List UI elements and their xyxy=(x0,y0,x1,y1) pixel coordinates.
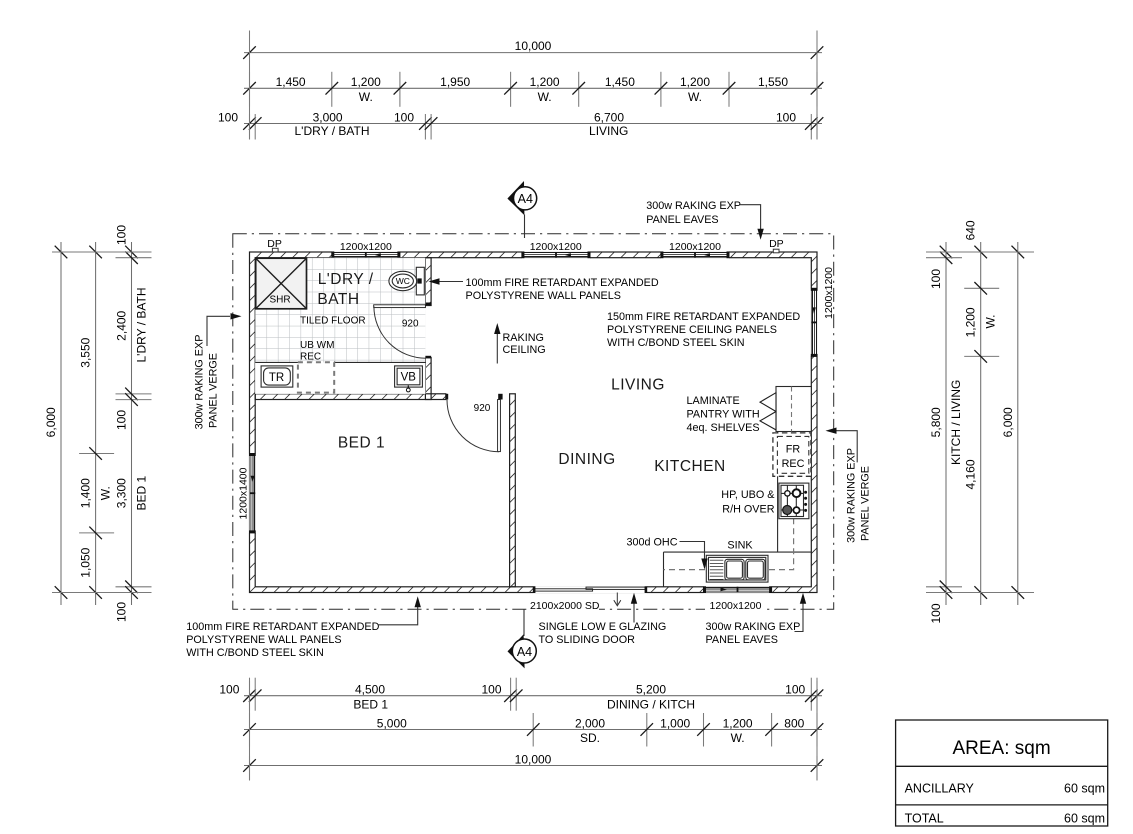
note 300d OHC with down arrow xyxy=(626,537,707,570)
svg-text:UB WM: UB WM xyxy=(300,340,334,351)
svg-text:1200x1200: 1200x1200 xyxy=(530,241,582,253)
top dim end extension lines xyxy=(249,31,251,140)
bath bench xyxy=(255,362,425,393)
svg-text:300w RAKING EXP: 300w RAKING EXP xyxy=(194,335,206,430)
svg-text:BATH: BATH xyxy=(317,291,359,308)
svg-text:300w RAKING EXP: 300w RAKING EXP xyxy=(706,621,801,633)
svg-text:VB: VB xyxy=(401,372,417,384)
interior wall: bed 1 east wall xyxy=(510,394,516,587)
svg-text:RAKING: RAKING xyxy=(503,332,544,344)
downpipe DP top-left xyxy=(267,238,282,252)
note single low e glazing with up arrow xyxy=(539,593,667,646)
left dimension line middle: 3,550 / 1,400 W. / 1,050 xyxy=(79,242,115,605)
sliding door 2100x2000 SD bottom wall xyxy=(533,586,647,593)
svg-text:1200x1200: 1200x1200 xyxy=(710,600,762,612)
svg-text:6,700: 6,700 xyxy=(594,110,624,124)
svg-text:AREA: sqm: AREA: sqm xyxy=(952,738,1050,759)
interior wall: bath east wall upper segment xyxy=(425,258,431,306)
svg-text:CEILING: CEILING xyxy=(503,344,546,356)
svg-text:1,400: 1,400 xyxy=(79,478,93,508)
bottom dimension row 1: 100/4,500 BED 1/100/5,200 DINING-KITCH/100 xyxy=(219,678,823,712)
bottom dim end extension lines xyxy=(249,681,251,780)
svg-text:L'DRY / BATH: L'DRY / BATH xyxy=(295,124,370,138)
svg-text:2100x2000 SD: 2100x2000 SD xyxy=(530,600,600,612)
window W6 1200x1200 right wall (living) xyxy=(811,288,818,357)
note 300w raking exp panel verge (right) with left arrow xyxy=(826,428,872,543)
svg-text:W.: W. xyxy=(731,731,745,745)
svg-text:A4: A4 xyxy=(518,192,533,206)
svg-text:100: 100 xyxy=(219,683,239,697)
interior wall: bath east wall lower segment xyxy=(425,358,431,400)
svg-text:100: 100 xyxy=(115,410,129,430)
svg-text:1,550: 1,550 xyxy=(758,75,788,89)
open down arrow at sliding door sill xyxy=(614,593,621,606)
shower SHR xyxy=(256,258,307,309)
svg-text:10,000: 10,000 xyxy=(515,39,552,53)
svg-text:WITH C/BOND STEEL SKIN: WITH C/BOND STEEL SKIN xyxy=(607,337,745,349)
pantry with shelves xyxy=(760,387,811,432)
bottom dimension row 3: overall 10,000 xyxy=(243,752,823,780)
svg-text:100: 100 xyxy=(115,225,129,245)
svg-text:920: 920 xyxy=(402,319,419,330)
svg-text:PANEL VERGE: PANEL VERGE xyxy=(208,353,220,428)
right dimension line middle: 640 / 1,200 W. / 4,160 xyxy=(964,220,1000,605)
downpipe DP top-right xyxy=(769,238,784,253)
svg-text:DP: DP xyxy=(769,238,784,250)
note 300w raking exp panel eaves (top) with down arrow xyxy=(646,200,764,240)
svg-text:300d OHC: 300d OHC xyxy=(626,537,677,549)
right horizontal extension lines at wall faces xyxy=(926,251,1034,253)
svg-text:W.: W. xyxy=(984,315,998,329)
left dimension line outer: 6,000 xyxy=(44,242,67,605)
label 2100x2000 SD xyxy=(528,600,599,610)
toilet WC xyxy=(389,267,424,295)
svg-text:100mm FIRE RETARDANT EXPANDED: 100mm FIRE RETARDANT EXPANDED xyxy=(186,621,379,633)
washing machine recess (dashed) xyxy=(298,362,334,392)
bath door leaf and swing arc (920) xyxy=(374,303,431,359)
section marker A4 (top) xyxy=(507,181,536,238)
svg-text:BED 1: BED 1 xyxy=(353,698,388,712)
double sink xyxy=(706,555,768,582)
svg-text:3,550: 3,550 xyxy=(79,337,93,367)
svg-text:5,800: 5,800 xyxy=(929,407,943,437)
tiled floor grid (bath) xyxy=(255,258,425,394)
svg-text:800: 800 xyxy=(784,716,804,730)
svg-text:1200x1200: 1200x1200 xyxy=(340,241,392,253)
interior wall: bath south / bed north wall xyxy=(255,394,446,400)
svg-text:2,400: 2,400 xyxy=(115,310,129,340)
note 150mm ceiling panels xyxy=(607,311,800,349)
svg-text:TO SLIDING DOOR: TO SLIDING DOOR xyxy=(539,634,636,646)
left dimension line inner: 100/2,400 LDRY-BATH/100/3,300 BED 1/100 xyxy=(115,225,152,622)
svg-text:SINK: SINK xyxy=(727,540,753,552)
svg-text:R/H OVER: R/H OVER xyxy=(722,503,774,515)
laundry trough TR xyxy=(261,366,293,387)
svg-text:W.: W. xyxy=(688,90,702,104)
svg-text:TOTAL: TOTAL xyxy=(905,812,944,826)
svg-text:1,000: 1,000 xyxy=(660,716,690,730)
svg-text:1,200: 1,200 xyxy=(723,716,753,730)
svg-text:LIVING: LIVING xyxy=(589,124,628,138)
svg-text:A4: A4 xyxy=(517,645,532,659)
svg-text:WC: WC xyxy=(396,276,410,286)
svg-text:100: 100 xyxy=(394,110,414,124)
svg-text:POLYSTYRENE WALL PANELS: POLYSTYRENE WALL PANELS xyxy=(466,290,621,302)
area schedule table xyxy=(896,720,1108,826)
svg-text:4,160: 4,160 xyxy=(964,459,978,489)
svg-text:1,200: 1,200 xyxy=(680,75,710,89)
svg-text:1,200: 1,200 xyxy=(530,75,560,89)
dimension line overall width 10,000 (top row A) xyxy=(243,39,823,59)
overhead cupboard dashed line 300d OHC xyxy=(664,518,794,569)
svg-text:1,050: 1,050 xyxy=(79,547,93,577)
eaves overhang dash-dot outline xyxy=(233,234,834,610)
svg-text:W.: W. xyxy=(359,90,373,104)
svg-text:150mm FIRE RETARDANT EXPANDED: 150mm FIRE RETARDANT EXPANDED xyxy=(607,311,800,323)
note 300w raking exp panel eaves (bottom) with up arrow xyxy=(706,593,807,646)
note 100mm wall panels (top) with arrow xyxy=(429,277,659,302)
right dimension line outer: 6,000 xyxy=(1001,242,1024,605)
svg-text:100mm FIRE RETARDANT EXPANDED: 100mm FIRE RETARDANT EXPANDED xyxy=(466,277,659,289)
svg-text:LIVING: LIVING xyxy=(611,377,665,394)
svg-text:L'DRY /: L'DRY / xyxy=(318,271,374,288)
svg-text:PANTRY WITH: PANTRY WITH xyxy=(687,408,760,420)
window W3 1200x1200 top wall right xyxy=(660,251,729,258)
svg-text:BED 1: BED 1 xyxy=(135,476,149,511)
svg-text:W.: W. xyxy=(99,486,113,500)
left horizontal extension lines at wall faces xyxy=(52,251,140,253)
svg-text:300w RAKING EXP: 300w RAKING EXP xyxy=(646,200,741,212)
svg-text:1,450: 1,450 xyxy=(605,75,635,89)
dimension row C: 100 / 3,000 LDRY-BATH / 100 / 6,700 LIVING / 100 xyxy=(218,110,823,139)
note HP UBO RH OVER xyxy=(721,489,775,515)
svg-text:1,950: 1,950 xyxy=(440,75,470,89)
svg-text:60 sqm: 60 sqm xyxy=(1064,812,1105,826)
svg-text:HP, UBO &: HP, UBO & xyxy=(721,489,775,501)
window W2 1200x1200 top wall middle xyxy=(521,251,590,258)
svg-text:L'DRY / BATH: L'DRY / BATH xyxy=(135,288,149,363)
svg-text:6,000: 6,000 xyxy=(1001,407,1015,437)
svg-text:POLYSTYRENE WALL PANELS: POLYSTYRENE WALL PANELS xyxy=(186,634,341,646)
dimension row B: window segments 1,450/1,200/1,950/1,200/1,450/1,200/1,550 xyxy=(243,72,823,107)
svg-text:60 sqm: 60 sqm xyxy=(1064,782,1105,796)
svg-text:POLYSTYRENE CEILING PANELS: POLYSTYRENE CEILING PANELS xyxy=(607,324,777,336)
svg-text:PANEL VERGE: PANEL VERGE xyxy=(859,466,871,541)
section marker A4 (bottom) xyxy=(508,609,537,668)
svg-text:LAMINATE: LAMINATE xyxy=(687,395,740,407)
svg-text:SINGLE LOW E GLAZING: SINGLE LOW E GLAZING xyxy=(539,621,667,633)
cooktop HP UBO xyxy=(779,483,809,519)
svg-text:100: 100 xyxy=(115,602,129,622)
note laminate pantry xyxy=(687,395,760,434)
svg-text:1,200: 1,200 xyxy=(351,75,381,89)
svg-text:5,000: 5,000 xyxy=(377,716,407,730)
bottom dimension row 2: 5,000/2,000 SD./1,000/1,200 W./800 xyxy=(243,713,823,747)
svg-text:W.: W. xyxy=(538,90,552,104)
svg-text:PANEL EAVES: PANEL EAVES xyxy=(646,214,718,226)
svg-text:1,450: 1,450 xyxy=(276,75,306,89)
note 100mm wall panels (bottom-left) with up arrow xyxy=(186,596,421,659)
svg-text:2,000: 2,000 xyxy=(575,716,605,730)
svg-text:100: 100 xyxy=(481,683,501,697)
svg-text:WITH C/BOND STEEL SKIN: WITH C/BOND STEEL SKIN xyxy=(186,647,324,659)
exterior wall band with hatch xyxy=(250,252,818,593)
svg-text:ANCILLARY: ANCILLARY xyxy=(905,782,975,796)
svg-text:TILED FLOOR: TILED FLOOR xyxy=(300,316,366,327)
svg-text:3,000: 3,000 xyxy=(313,110,343,124)
svg-text:PANEL EAVES: PANEL EAVES xyxy=(706,634,778,646)
svg-text:1,200: 1,200 xyxy=(964,307,978,337)
svg-text:100: 100 xyxy=(218,110,238,124)
svg-text:100: 100 xyxy=(929,269,943,289)
svg-text:3,300: 3,300 xyxy=(115,478,129,508)
svg-text:SD.: SD. xyxy=(580,731,600,745)
fridge recess FR REC (dashed) xyxy=(773,433,811,476)
svg-text:FR: FR xyxy=(786,444,801,456)
bed 1 door leaf and swing arc (920) xyxy=(446,394,503,452)
kitchen bench outline xyxy=(664,432,812,587)
svg-text:100: 100 xyxy=(776,110,796,124)
svg-text:300w RAKING EXP: 300w RAKING EXP xyxy=(845,448,857,543)
window W1 1200x1200 top wall left xyxy=(331,251,400,258)
svg-text:DINING / KITCH: DINING / KITCH xyxy=(607,698,695,712)
svg-text:1200x1200: 1200x1200 xyxy=(669,241,721,253)
window W5 1200x1400 left wall (bed 1) xyxy=(249,453,256,533)
svg-text:4eq. SHELVES: 4eq. SHELVES xyxy=(687,422,760,434)
note RAKING CEILING with up arrow xyxy=(494,323,546,364)
svg-text:6,000: 6,000 xyxy=(44,407,58,437)
svg-text:KITCHEN: KITCHEN xyxy=(654,458,726,475)
svg-text:1200x1200: 1200x1200 xyxy=(823,267,835,319)
svg-text:10,000: 10,000 xyxy=(515,752,552,766)
svg-text:4,500: 4,500 xyxy=(355,683,385,697)
svg-text:1200x1400: 1200x1400 xyxy=(237,467,249,519)
svg-text:5,200: 5,200 xyxy=(636,683,666,697)
svg-text:100: 100 xyxy=(785,683,805,697)
right dimension line inner: 100 / 5,800 KITCH-LIVING / 100 xyxy=(926,242,963,624)
svg-text:TR: TR xyxy=(269,372,284,384)
svg-text:BED 1: BED 1 xyxy=(338,435,385,452)
svg-text:SHR: SHR xyxy=(269,294,290,305)
svg-text:DINING: DINING xyxy=(558,451,615,468)
vanity basin VB xyxy=(395,366,423,392)
window W4 1200x1200 bottom wall (kitchen/sink) xyxy=(703,586,772,593)
svg-text:REC: REC xyxy=(300,351,321,362)
svg-text:920: 920 xyxy=(474,403,491,414)
svg-text:KITCH / LIVING: KITCH / LIVING xyxy=(949,380,963,465)
svg-text:640: 640 xyxy=(964,220,978,240)
svg-text:REC: REC xyxy=(782,458,805,470)
svg-text:100: 100 xyxy=(929,603,943,623)
note 300w raking exp panel verge (left) with right arrow xyxy=(194,313,242,429)
label 1200x1200 bottom window xyxy=(705,600,765,610)
